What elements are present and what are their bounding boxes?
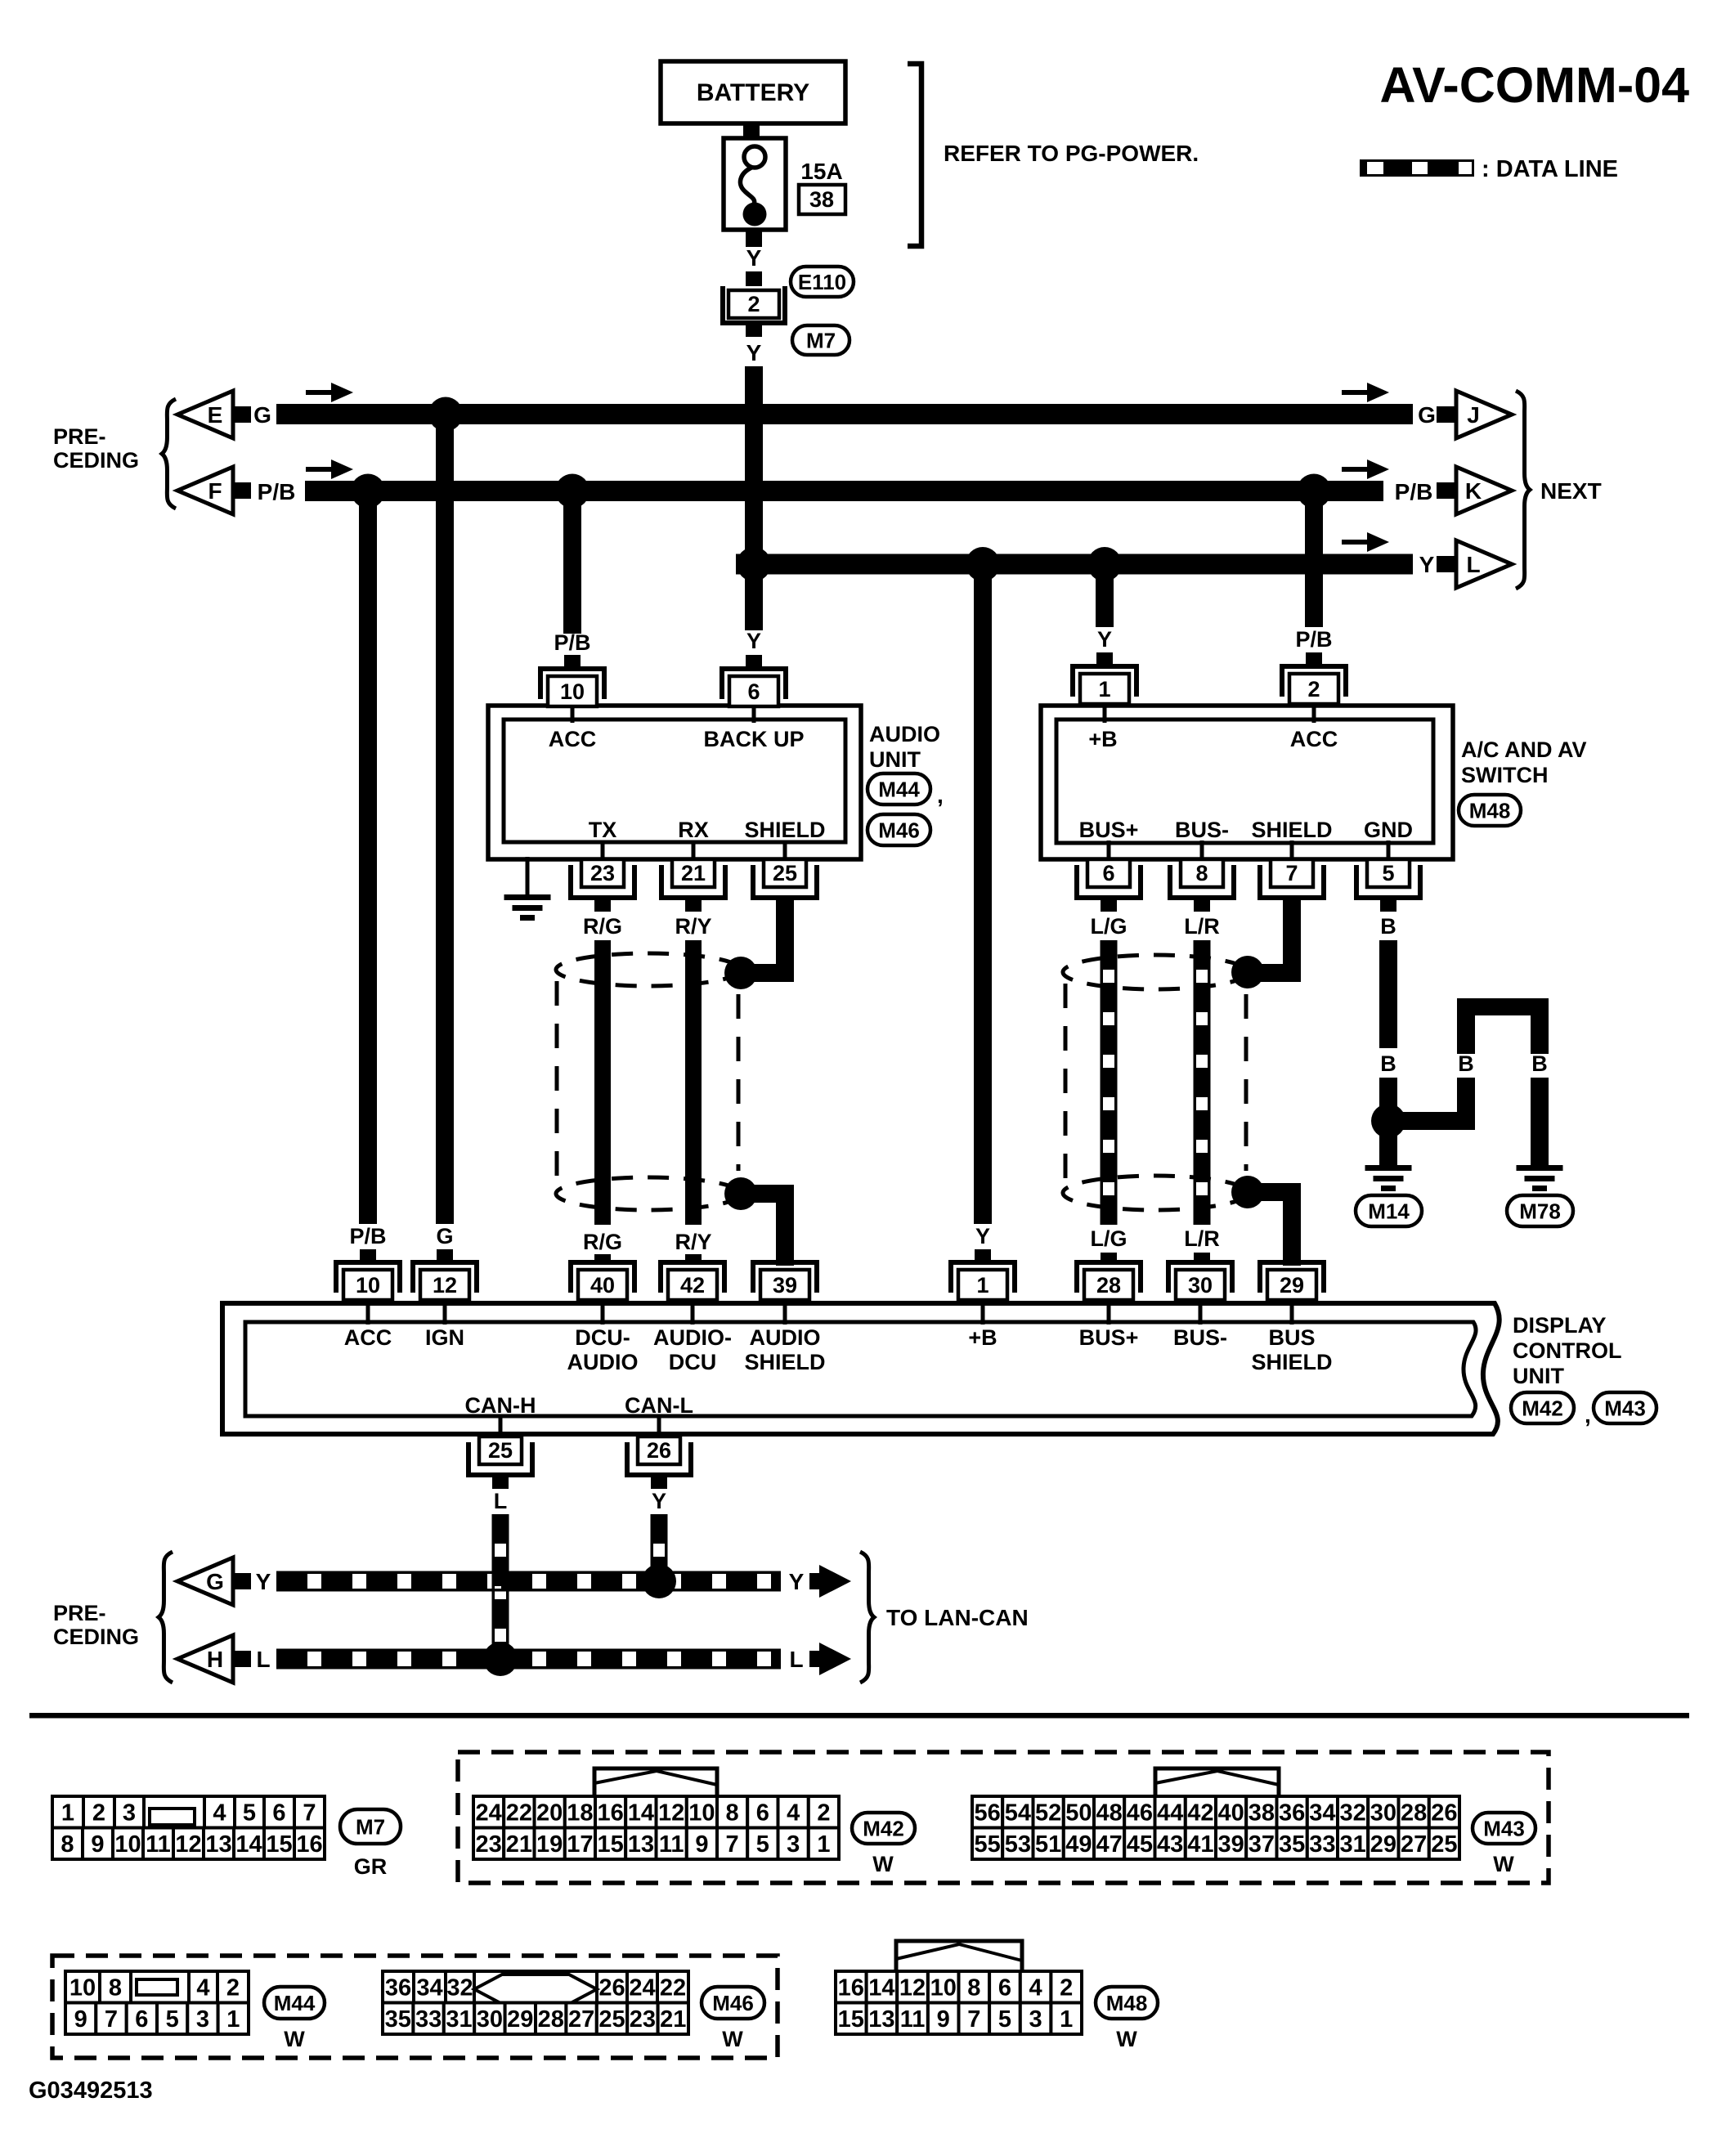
svg-text:R/G: R/G [583, 914, 622, 939]
brace preceding bottom [159, 1552, 173, 1683]
DCU pin 25 CAN-H [499, 1416, 503, 1439]
svg-text:49: 49 [1065, 1831, 1092, 1858]
svg-text:L: L [256, 1647, 270, 1672]
svg-text:+B: +B [1088, 727, 1117, 751]
svg-text:34: 34 [416, 1975, 442, 2001]
svg-text:AUDIO-: AUDIO- [653, 1325, 732, 1350]
svg-text:M78: M78 [1519, 1199, 1561, 1223]
svg-text:P/B: P/B [349, 1224, 386, 1248]
svg-text:7: 7 [303, 1800, 316, 1827]
svg-text:15: 15 [266, 1831, 292, 1858]
svg-text:7: 7 [105, 2006, 118, 2033]
svg-text:R/G: R/G [583, 1230, 622, 1254]
svg-text:40: 40 [590, 1273, 615, 1298]
wire Y CAN row [276, 1574, 781, 1589]
audio pin 25 SHIELD [783, 840, 787, 861]
svg-text:22: 22 [506, 1800, 532, 1827]
svg-text:29: 29 [1280, 1273, 1304, 1298]
svg-text:SHIELD: SHIELD [744, 818, 825, 842]
svg-text:6: 6 [272, 1800, 285, 1827]
svg-text:Y: Y [746, 245, 762, 271]
svg-text:L/R: L/R [1184, 914, 1220, 939]
svg-text:9: 9 [91, 1831, 104, 1858]
svg-text:16: 16 [597, 1800, 623, 1827]
junction G bus [428, 397, 463, 432]
battery [661, 61, 845, 123]
svg-text:25: 25 [773, 861, 797, 885]
svg-text:M44: M44 [274, 1991, 316, 2015]
svg-text:Y: Y [1419, 552, 1435, 577]
svg-text:26: 26 [647, 1438, 671, 1463]
svg-text:BUS-: BUS- [1175, 818, 1229, 842]
svg-text:39: 39 [1217, 1831, 1244, 1858]
svg-text:10: 10 [114, 1831, 141, 1858]
svg-text:W: W [284, 2027, 305, 2051]
svg-text:L/R: L/R [1184, 1226, 1220, 1251]
junction B [1371, 1104, 1405, 1138]
wire Y bus row [736, 554, 1413, 575]
svg-text:39: 39 [773, 1273, 797, 1298]
svg-text:ACC: ACC [549, 727, 597, 751]
audio pin 10 ACC [540, 669, 604, 699]
svg-text:7: 7 [726, 1831, 739, 1858]
svg-text:ACC: ACC [344, 1325, 392, 1350]
svg-text:12: 12 [175, 1831, 201, 1858]
svg-text:+B: +B [968, 1325, 997, 1350]
wire G bus row [276, 404, 1413, 424]
node F preceding P/B [177, 467, 233, 514]
svg-text:33: 33 [415, 2006, 442, 2033]
legend data line symbol [1360, 159, 1474, 177]
junction Y bus right [1087, 547, 1122, 581]
svg-text:1: 1 [976, 1273, 989, 1298]
svg-text:29: 29 [507, 2006, 533, 2033]
svg-text:19: 19 [536, 1831, 563, 1858]
A/C pin 6 BUS+ [1107, 840, 1111, 861]
svg-text:M43: M43 [1483, 1816, 1525, 1840]
svg-text:3: 3 [787, 1831, 800, 1858]
svg-text:M14: M14 [1368, 1199, 1410, 1223]
svg-text:27: 27 [1401, 1831, 1427, 1858]
svg-text:37: 37 [1249, 1831, 1275, 1858]
svg-text:9: 9 [74, 2006, 87, 2033]
svg-text:8: 8 [1195, 861, 1208, 885]
svg-text:M42: M42 [863, 1816, 904, 1840]
svg-text:BUS+: BUS+ [1079, 1325, 1139, 1350]
svg-text:35: 35 [385, 2006, 411, 2033]
svg-text:G: G [253, 402, 271, 428]
node E preceding G [177, 391, 233, 438]
svg-text:BATTERY: BATTERY [697, 79, 809, 106]
svg-text:5: 5 [243, 1800, 256, 1827]
wire L/G data to DCU 28 [1103, 940, 1114, 1225]
wire B top bar [1457, 998, 1549, 1015]
svg-text:K: K [1465, 478, 1482, 504]
svg-text:23: 23 [630, 2006, 656, 2033]
DCU pin 30 [1168, 1262, 1232, 1293]
junction Y CAN [642, 1564, 676, 1598]
svg-text:M44: M44 [878, 777, 920, 801]
shield audio dashed cylinder [556, 953, 741, 986]
svg-text:CAN-L: CAN-L [625, 1393, 693, 1418]
svg-text:TO LAN-CAN: TO LAN-CAN [886, 1605, 1029, 1630]
svg-text:53: 53 [1005, 1831, 1031, 1858]
svg-text:1: 1 [1098, 677, 1110, 701]
audio pin 6 BACK UP [722, 669, 786, 699]
DCU pin 29 [1260, 1262, 1324, 1293]
svg-text:M42: M42 [1522, 1396, 1563, 1420]
svg-text:18: 18 [567, 1800, 593, 1827]
wire Y data down [653, 1514, 665, 1574]
svg-text:44: 44 [1157, 1800, 1183, 1827]
svg-text:14: 14 [235, 1831, 262, 1858]
svg-text:1: 1 [226, 2006, 240, 2033]
svg-text:UNIT: UNIT [1513, 1364, 1564, 1388]
shield audio: pin25 wire down [776, 898, 794, 982]
svg-text:ACC: ACC [1290, 727, 1338, 751]
svg-text:15: 15 [838, 2006, 864, 2033]
connector M7 [52, 1796, 83, 1828]
svg-text:,: , [1585, 1402, 1591, 1428]
svg-text:52: 52 [1035, 1800, 1061, 1827]
svg-text:AV-COMM-04: AV-COMM-04 [1380, 57, 1690, 113]
svg-text:TX: TX [589, 818, 617, 842]
DCU pin 42 [661, 1262, 724, 1293]
svg-text:G: G [206, 1569, 224, 1594]
svg-text:8: 8 [726, 1800, 739, 1827]
svg-text:CEDING: CEDING [53, 448, 139, 473]
svg-text:GR: GR [354, 1854, 388, 1879]
audio ground [526, 857, 530, 894]
brace preceding top [162, 399, 176, 509]
wire fuse to E110 [746, 230, 762, 247]
svg-text:46: 46 [1127, 1800, 1153, 1827]
display control unit M42 M43 [222, 1303, 1500, 1434]
brace to lan-can [860, 1552, 874, 1683]
svg-text:22: 22 [660, 1975, 686, 2001]
junction P/B bus right [1297, 474, 1331, 509]
shield audio link bottom [724, 1177, 757, 1210]
svg-text:4: 4 [787, 1800, 800, 1827]
svg-text:SWITCH: SWITCH [1461, 763, 1548, 787]
svg-text:E110: E110 [798, 270, 846, 294]
svg-text:SHIELD: SHIELD [1251, 818, 1332, 842]
dashed box M42 M43 [458, 1752, 1549, 1883]
svg-text:A/C AND AV: A/C AND AV [1461, 737, 1587, 762]
brace next [1516, 391, 1530, 589]
svg-text:: DATA LINE: : DATA LINE [1482, 156, 1618, 182]
svg-text:54: 54 [1005, 1800, 1031, 1827]
svg-text:4: 4 [196, 1975, 209, 2001]
svg-text:SHIELD: SHIELD [744, 1350, 825, 1374]
svg-text:PRE-: PRE- [53, 1601, 106, 1625]
wire G drop to DCU pin 12 [436, 413, 454, 1224]
svg-text:56: 56 [974, 1800, 1000, 1827]
svg-text:L/G: L/G [1091, 1226, 1127, 1251]
svg-text:G: G [1418, 402, 1436, 428]
svg-text:G: G [436, 1224, 453, 1248]
svg-text:16: 16 [838, 1975, 864, 2001]
svg-text:8: 8 [109, 1975, 122, 2001]
wire P/B drop to A/C pin 2 [1305, 500, 1323, 627]
svg-text:Y: Y [975, 1224, 990, 1248]
svg-text:6: 6 [998, 1975, 1011, 2001]
svg-text:PRE-: PRE- [53, 424, 106, 449]
svg-text:42: 42 [680, 1273, 705, 1298]
audio unit M44 M46 [488, 706, 861, 859]
svg-text:10: 10 [688, 1800, 715, 1827]
svg-text:13: 13 [205, 1831, 231, 1858]
node L next Y [1342, 540, 1370, 545]
wire Y drop to A/C pin 1 [1096, 564, 1114, 627]
svg-text:L: L [789, 1647, 803, 1672]
svg-text:1: 1 [1060, 2006, 1073, 2033]
svg-text:6: 6 [747, 679, 760, 704]
wire B branch right [1388, 1112, 1475, 1130]
svg-text:Y: Y [1097, 627, 1112, 652]
svg-text:AUDIO: AUDIO [567, 1350, 639, 1374]
A/C pin 1 +B [1073, 666, 1136, 697]
svg-text:3: 3 [196, 2006, 209, 2033]
svg-text:24: 24 [475, 1800, 501, 1827]
DCU pin 40 [571, 1262, 634, 1293]
svg-text:48: 48 [1096, 1800, 1122, 1827]
svg-text:B: B [1380, 914, 1396, 939]
svg-text:Y: Y [746, 340, 762, 365]
svg-text:10: 10 [356, 1273, 380, 1298]
svg-text:8: 8 [61, 1831, 74, 1858]
wire B gnd down [1379, 940, 1397, 1048]
svg-text:M43: M43 [1604, 1396, 1646, 1420]
svg-text:P/B: P/B [258, 479, 296, 504]
wire P/B drop to DCU pin 10 [359, 500, 377, 1224]
wire L/R data to DCU 30 [1196, 940, 1208, 1225]
wire battery to fuse [743, 123, 760, 138]
svg-text:9: 9 [937, 2006, 950, 2033]
svg-text:M46: M46 [878, 818, 920, 842]
svg-text:47: 47 [1096, 1831, 1122, 1858]
A/C pin 2 ACC [1282, 666, 1346, 697]
svg-text:BUS: BUS [1268, 1325, 1315, 1350]
svg-text:21: 21 [506, 1831, 532, 1858]
svg-text:CONTROL: CONTROL [1513, 1338, 1621, 1363]
svg-text:DISPLAY: DISPLAY [1513, 1313, 1607, 1338]
svg-text:35: 35 [1279, 1831, 1305, 1858]
svg-text:L/G: L/G [1091, 914, 1127, 939]
svg-text:BUS+: BUS+ [1079, 818, 1139, 842]
svg-text:F: F [208, 478, 222, 504]
svg-text:Y: Y [652, 1489, 666, 1513]
svg-text:30: 30 [1188, 1273, 1213, 1298]
svg-text:25: 25 [488, 1438, 513, 1463]
svg-text:25: 25 [598, 2006, 625, 2033]
svg-text:AUDIO: AUDIO [869, 722, 940, 746]
svg-text:14: 14 [628, 1800, 654, 1827]
wire R/G TX to DCU 40 [594, 940, 611, 1225]
svg-text:Y: Y [256, 1569, 271, 1594]
svg-text:Y: Y [789, 1569, 805, 1594]
junction Y bus left [737, 547, 771, 581]
wire Y drop to DCU pin 1 [974, 564, 992, 1224]
ground M78 [1517, 1165, 1563, 1171]
svg-text:26: 26 [598, 1975, 625, 2001]
svg-text:W: W [1493, 1852, 1514, 1876]
svg-text:11: 11 [659, 1831, 684, 1858]
svg-text:21: 21 [681, 861, 706, 885]
svg-text:2: 2 [817, 1800, 830, 1827]
svg-text:B: B [1458, 1051, 1474, 1076]
svg-text:2: 2 [1307, 677, 1320, 701]
svg-text:6: 6 [1102, 861, 1114, 885]
arrow Y to LAN-CAN [819, 1565, 851, 1598]
svg-text:32: 32 [1339, 1800, 1365, 1827]
svg-text:UNIT: UNIT [869, 747, 921, 772]
wire R/Y RX to DCU 42 [685, 940, 702, 1225]
svg-text:R/Y: R/Y [675, 1230, 711, 1254]
svg-text:38: 38 [809, 187, 834, 212]
svg-text:L: L [494, 1489, 508, 1513]
svg-text:28: 28 [1096, 1273, 1121, 1298]
svg-text:G03492513: G03492513 [29, 2078, 153, 2104]
connector M42 [594, 1768, 717, 1795]
svg-text:BUS-: BUS- [1173, 1325, 1227, 1350]
svg-text:5: 5 [166, 2006, 179, 2033]
svg-text:14: 14 [868, 1975, 894, 2001]
svg-text:51: 51 [1035, 1831, 1061, 1858]
svg-text:B: B [1531, 1051, 1548, 1076]
connector M43 [1155, 1768, 1279, 1795]
node K next P/B [1342, 467, 1370, 472]
svg-text:M48: M48 [1469, 798, 1511, 823]
wire P/B bus row [305, 481, 1383, 501]
DCU pin 12 [413, 1262, 477, 1293]
svg-text:DCU-: DCU- [575, 1325, 630, 1350]
DCU pin 28 [1077, 1262, 1141, 1293]
svg-text:W: W [872, 1852, 894, 1876]
svg-text:REFER TO PG-POWER.: REFER TO PG-POWER. [944, 141, 1199, 166]
svg-text:16: 16 [296, 1831, 322, 1858]
shield A/C link bottom [1231, 1176, 1264, 1208]
arrow L to LAN-CAN [819, 1643, 851, 1675]
wire P/B drop to audio pin 10 [563, 500, 581, 634]
svg-text:15: 15 [597, 1831, 623, 1858]
svg-text:4: 4 [1029, 1975, 1042, 2001]
svg-text:P/B: P/B [1295, 627, 1332, 652]
connector M44 [65, 1971, 100, 2003]
audio pin 21 RX [692, 840, 696, 861]
svg-text:NEXT: NEXT [1540, 478, 1602, 504]
svg-text:42: 42 [1187, 1800, 1213, 1827]
dashed box M44 M46 [52, 1956, 778, 2058]
svg-text:5: 5 [1382, 861, 1394, 885]
svg-text:9: 9 [695, 1831, 708, 1858]
svg-text:40: 40 [1217, 1800, 1244, 1827]
svg-text:M46: M46 [712, 1991, 754, 2015]
svg-text:27: 27 [568, 2006, 594, 2033]
svg-text:12: 12 [899, 1975, 926, 2001]
svg-text:3: 3 [1029, 2006, 1042, 2033]
svg-text:GND: GND [1364, 818, 1413, 842]
wire shield to DCU 39 [776, 1185, 794, 1266]
svg-text:1: 1 [61, 1800, 74, 1827]
audio pin 23 TX [601, 840, 605, 861]
svg-text:43: 43 [1157, 1831, 1183, 1858]
DCU pin 26 CAN-L [657, 1416, 661, 1439]
junction P/B bus left [351, 474, 385, 509]
svg-text:10: 10 [930, 1975, 957, 2001]
wire L CAN row [276, 1652, 781, 1666]
svg-text:31: 31 [446, 2006, 472, 2033]
wire Y drop to audio pin 6 [745, 564, 763, 630]
wire Y down to Y-bus [745, 366, 763, 564]
svg-text:8: 8 [967, 1975, 980, 2001]
connector M48 [896, 1941, 1022, 1970]
svg-text:10: 10 [560, 679, 585, 704]
svg-text:33: 33 [1309, 1831, 1335, 1858]
svg-text:2: 2 [747, 292, 760, 316]
svg-text:41: 41 [1187, 1831, 1213, 1858]
svg-text:1: 1 [817, 1831, 830, 1858]
svg-text:Y: Y [746, 629, 761, 653]
svg-text:W: W [1116, 2027, 1137, 2051]
svg-text:13: 13 [628, 1831, 654, 1858]
svg-text:CEDING: CEDING [53, 1625, 139, 1649]
A/C pin 8 BUS- [1200, 840, 1204, 861]
bracket refer to pg-power [908, 64, 921, 246]
separator line [29, 1713, 1689, 1719]
svg-text:E: E [208, 402, 223, 428]
svg-text:2: 2 [226, 1975, 240, 2001]
svg-text:BACK UP: BACK UP [703, 727, 804, 751]
svg-text:DCU: DCU [669, 1350, 717, 1374]
shield A/C: pin7 wire down [1283, 898, 1301, 982]
svg-text:J: J [1467, 402, 1480, 428]
svg-text:26: 26 [1431, 1800, 1457, 1827]
svg-text:2: 2 [92, 1800, 105, 1827]
svg-text:28: 28 [538, 2006, 564, 2033]
svg-text:23: 23 [590, 861, 615, 885]
svg-text:M7: M7 [806, 328, 836, 352]
junction Y bus mid [966, 547, 1000, 581]
svg-text:H: H [207, 1647, 223, 1672]
svg-text:P/B: P/B [1395, 479, 1433, 504]
svg-text:28: 28 [1401, 1800, 1427, 1827]
svg-text:M48: M48 [1106, 1991, 1148, 2015]
svg-text:RX: RX [678, 818, 709, 842]
svg-text:29: 29 [1370, 1831, 1396, 1858]
A/C pin 5 GND [1387, 840, 1391, 861]
svg-text:R/Y: R/Y [675, 914, 711, 939]
svg-text:15A: 15A [800, 159, 842, 184]
DCU pin 10 [336, 1262, 400, 1293]
svg-text:B: B [1380, 1051, 1396, 1076]
svg-text:30: 30 [1370, 1800, 1396, 1827]
svg-text:38: 38 [1249, 1800, 1275, 1827]
svg-text:6: 6 [756, 1800, 769, 1827]
svg-text:5: 5 [756, 1831, 769, 1858]
DCU pin 39 [753, 1262, 817, 1293]
svg-text:34: 34 [1309, 1800, 1335, 1827]
fuse 15A 38 [724, 138, 786, 230]
svg-text:10: 10 [69, 1975, 96, 2001]
shield audio link top [741, 964, 785, 982]
ground M14 [1365, 1165, 1412, 1171]
shield A/C link top [1248, 964, 1292, 982]
svg-text:CAN-H: CAN-H [465, 1393, 536, 1418]
svg-text:12: 12 [658, 1800, 684, 1827]
svg-text:30: 30 [477, 2006, 503, 2033]
svg-text:2: 2 [1060, 1975, 1073, 2001]
